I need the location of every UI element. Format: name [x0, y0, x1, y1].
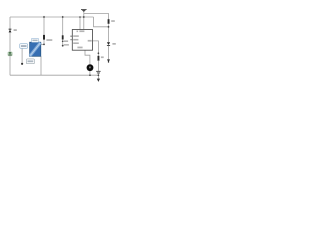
wire left vertical drop: [9, 17, 11, 75]
wire clock node drop: [21, 48, 23, 63]
LED1 green: [8, 52, 13, 57]
terminal arrow right branch: [107, 59, 110, 62]
diode D1: [9, 29, 12, 33]
resistor R2: [108, 19, 110, 24]
wire R3 to C2: [97, 61, 99, 71]
node dot below C1: [62, 41, 64, 43]
wire D2 to terminal: [108, 46, 110, 60]
capacitor C2: [96, 71, 100, 74]
diode D2: [107, 42, 110, 46]
wire bottom rail: [10, 74, 98, 76]
resistor R3: [98, 56, 100, 61]
wire rail corner down to R2 bottom node: [94, 17, 109, 27]
wire IC pin 15 stub to rail: [79, 17, 81, 30]
wire top power rail: [10, 16, 94, 18]
wire speaker to bottom rail: [89, 71, 91, 76]
label box Clock: [20, 44, 28, 49]
node control label: [64, 44, 69, 46]
label R1 value: [46, 39, 52, 41]
label D1: [14, 29, 17, 31]
label C1 value: [64, 40, 68, 42]
node junction dots: [43, 16, 45, 18]
wire IC output Q to R3: [93, 41, 99, 56]
label box above 555: [31, 38, 38, 42]
IC U1 4017: [72, 30, 92, 51]
wire top right feed to R2: [84, 14, 109, 20]
label D2: [112, 43, 115, 45]
speaker SPK1: [87, 64, 94, 71]
555 timer blue module: [30, 42, 41, 56]
wire VCC stem to IC pin 16: [83, 10, 85, 29]
wire 555 box bottom drop: [40, 56, 42, 75]
wire R2 to D2: [108, 24, 110, 42]
wire IC pin 8 down to speaker: [85, 50, 90, 64]
label R2 value: [111, 20, 115, 22]
wire C2 to ground: [97, 73, 99, 80]
wire C1 branch from rail: [62, 16, 64, 46]
ground arrow bottom: [97, 79, 100, 82]
capacitor C1: [62, 35, 64, 39]
label box under 555: [26, 59, 34, 64]
label R3: [101, 56, 104, 58]
wire stub 555 box to node: [41, 43, 44, 45]
wire R1 branch from rail: [43, 16, 45, 45]
resistor R1: [43, 35, 45, 40]
power VCC symbol: [81, 9, 87, 12]
IC left pin stubs: [70, 36, 72, 40]
